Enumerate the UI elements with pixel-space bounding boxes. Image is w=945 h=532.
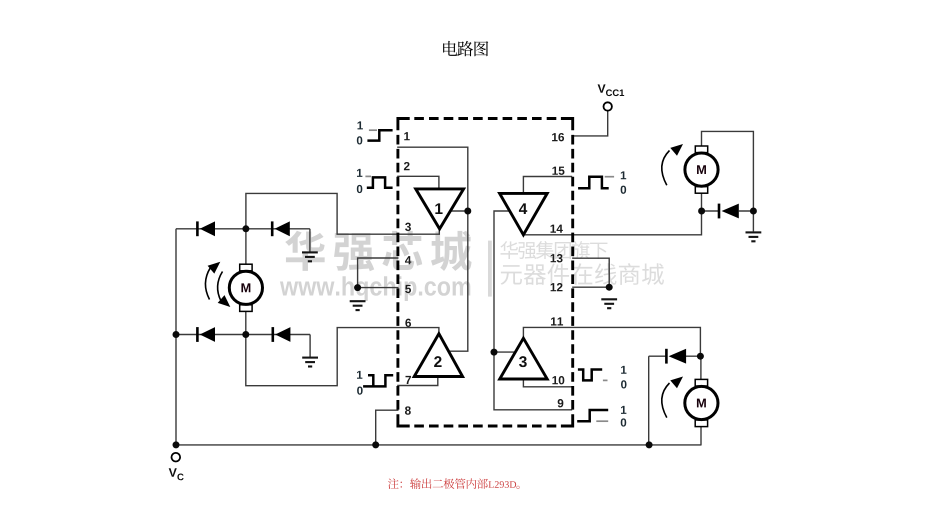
op-amp driver IC dashed outline — [398, 119, 573, 427]
VC label — [169, 468, 177, 477]
junction diode D6 / VC rail — [646, 441, 653, 448]
wire diode D6 leads — [649, 355, 701, 357]
wire motor M1 top lead — [245, 229, 247, 265]
VCC1 label — [598, 84, 606, 92]
input waveform pin 7 (notch) — [357, 371, 393, 395]
junction node bridge top / motor M1 — [242, 225, 249, 232]
junction pin 8 / VC rail — [372, 441, 379, 448]
wire pin 10 to amp 3 input — [523, 379, 572, 387]
pin 1 label — [404, 132, 409, 140]
driver amp 1 — [416, 189, 464, 229]
input waveform pin 2 (pulse) — [357, 169, 393, 193]
diode D4 (bridge bottom-right) — [273, 327, 291, 342]
note 注：输出二极管内部L293D — [388, 478, 488, 489]
watermark separator bar — [488, 241, 492, 297]
junction motor M3 / diode D6 cathode — [697, 353, 704, 360]
watermark 华强集团旗下 — [500, 241, 607, 259]
wire pin 9 enable rail amps 3-4 — [494, 211, 572, 410]
ground (bottom bridge row) — [302, 358, 318, 367]
wire amp 3 output pin 11 to motor M3 — [523, 327, 700, 356]
wire pin 4 to ground — [358, 258, 399, 288]
pin 8 label — [405, 406, 411, 414]
junction diode D5 cathode node — [750, 208, 757, 215]
ground (top bridge row) — [302, 252, 318, 261]
wire VC bottom rail — [176, 444, 702, 446]
junction pins 12-13 ground node — [606, 284, 613, 291]
watermark www.hqchip.com — [280, 276, 470, 301]
wire ground drop from bottom row — [309, 335, 311, 358]
wire pin 1 enable rail amps 1-2 — [397, 147, 468, 351]
ground (diode D5 node) — [746, 232, 762, 241]
input waveform pin 9 (step up) — [577, 406, 626, 427]
wire diode D6 anode drop to VC rail — [648, 356, 650, 445]
pin 15 label — [552, 167, 564, 175]
driver amp 3 — [500, 338, 548, 379]
wire pin 7 to amp 2 input — [397, 377, 438, 386]
diode D2 (bridge top-right) — [272, 221, 290, 236]
pin 11 label — [551, 317, 563, 325]
wire left supply rail — [175, 229, 177, 445]
pin 6 label — [405, 319, 411, 327]
junction enable rail at amp 3 — [491, 349, 498, 356]
ground (pins 12-13) — [601, 299, 617, 308]
driver amp 2 — [414, 334, 462, 377]
wire pin 12 to ground node — [572, 286, 609, 288]
title 电路图 — [443, 41, 488, 56]
wire bridge bottom row — [176, 334, 310, 336]
input waveform pin 1 (step up) — [357, 121, 393, 144]
wire amp 3 enable tap — [494, 351, 516, 353]
input waveform pin 15 (pulse) — [578, 171, 626, 193]
wire pin 16 to VCC1 terminal — [572, 111, 608, 136]
diode D3 (bridge bottom-left) — [197, 327, 215, 342]
pin 14 label — [551, 225, 563, 233]
diode D1 (bridge top-left) — [197, 221, 215, 236]
wire amp 1 enable tap — [451, 210, 468, 212]
wire pin 13 to ground — [572, 258, 609, 287]
pin 12 label — [551, 283, 563, 291]
wire node bottom bridge to pin 6 — [246, 328, 439, 386]
pin 5 label — [405, 285, 411, 293]
wire motor M1 bottom lead — [245, 312, 247, 335]
wire pin 2 to amp 1 input — [397, 176, 439, 189]
junction left rail / bottom row — [173, 331, 180, 338]
motor M2 (top right) — [685, 146, 718, 193]
wire pin 15 to amp 4 input — [523, 177, 572, 194]
wire motor M3 bottom lead — [700, 426, 702, 445]
VCC1 terminal — [604, 102, 612, 110]
diode D5 (motor M2 clamp) — [719, 204, 739, 219]
watermark 华强芯城 — [285, 231, 471, 272]
pin 3 label — [405, 223, 411, 231]
junction pins 4-5 ground node — [354, 284, 361, 291]
wire ground drop from diode D5 node — [752, 211, 754, 231]
wire motor M2 loop top — [702, 131, 754, 211]
rotation arrow motor M2 — [662, 144, 683, 185]
junction node bridge bottom / motor M1 — [242, 331, 249, 338]
wire diode D5 leads — [702, 210, 754, 212]
input waveform pin 10 (notch) — [578, 366, 627, 389]
wire bridge top row — [176, 228, 310, 230]
junction motor M2 / diode D5 anode — [698, 208, 705, 215]
pin 2 label — [404, 162, 410, 170]
pin 4 label — [405, 256, 411, 264]
pin 16 label — [552, 133, 564, 141]
motor M1 (left bridge) — [229, 264, 262, 311]
pin 10 label — [552, 376, 564, 384]
wire motor M3 top lead — [700, 356, 702, 380]
pin 9 label — [558, 399, 564, 407]
wire pin 8 to VC rail — [376, 410, 399, 445]
watermark 元器件在线商城 — [501, 263, 664, 285]
junction VC terminal node — [173, 441, 180, 448]
rotation arrow motor M3 — [662, 377, 683, 418]
rotation arrows motor M1 (bidirectional) — [205, 268, 222, 301]
pin 7 label — [406, 376, 412, 384]
wire ground drop from top row — [309, 229, 311, 252]
pin 13 label — [551, 254, 563, 262]
motor M3 (bottom right) — [685, 379, 718, 426]
wire pin 5 to ground node — [358, 287, 399, 289]
ground (pins 4-5) — [350, 301, 366, 310]
wire motor M2 bottom lead — [701, 193, 703, 211]
diode D6 (motor M3 clamp) — [666, 349, 686, 364]
junction enable rail at amp 1 — [464, 208, 471, 215]
wire amp 4 output pin 14 to motor M2 — [523, 211, 701, 235]
VC terminal — [172, 453, 181, 462]
driver amp 4 — [500, 193, 548, 234]
wire node top bridge to pin 3 — [246, 193, 439, 234]
